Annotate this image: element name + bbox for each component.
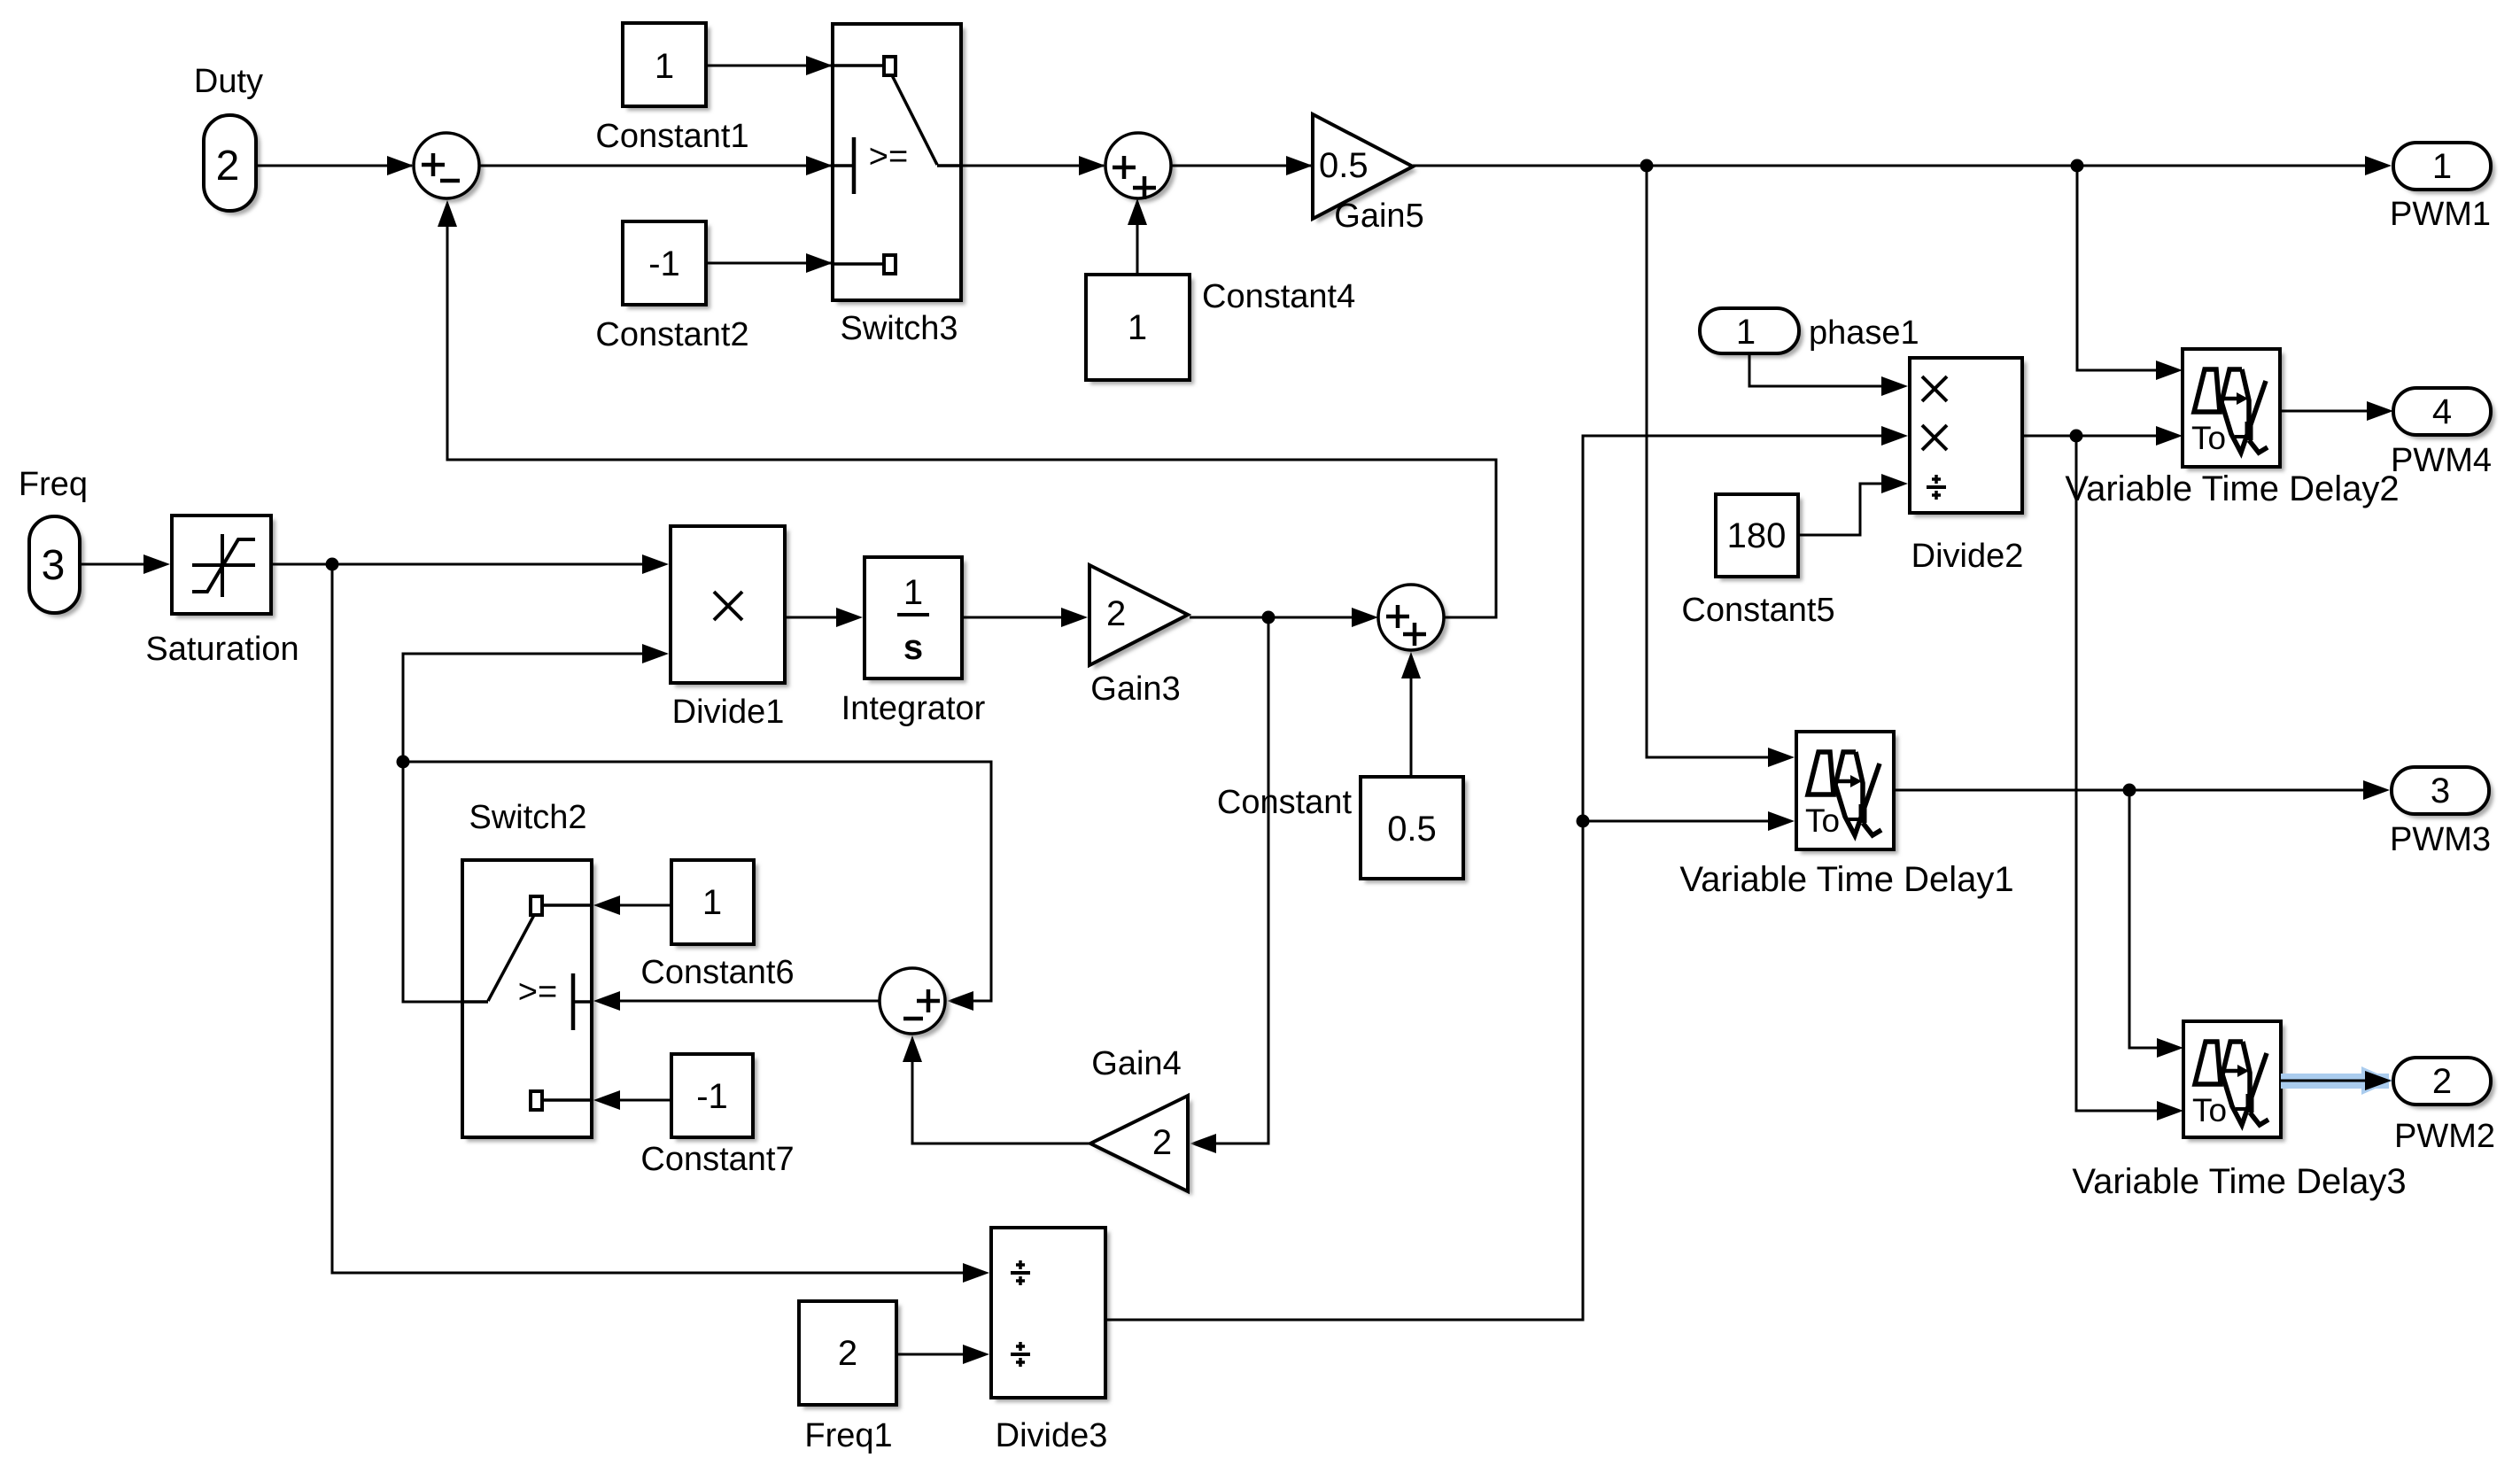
label Gain4 — [1091, 1045, 1181, 1082]
label Switch3 — [840, 310, 958, 347]
sum junction Sum1 (+ -) — [414, 133, 484, 203]
label Divide1 — [672, 694, 785, 731]
label Freq — [19, 466, 88, 503]
wire Gain4 to Sum4 bottom input — [903, 1035, 1090, 1144]
svg-text:>=: >= — [869, 138, 908, 175]
svg-text:180: 180 — [1727, 516, 1787, 555]
label Duty — [194, 63, 263, 100]
node junction after Gain3 — [1262, 611, 1276, 624]
output port PWM2 (Out 2) — [2393, 1058, 2495, 1109]
wire Sum3 output feedback to Sum1 — [438, 200, 1496, 617]
svg-text:4: 4 — [2432, 392, 2452, 431]
label Constant2 — [595, 316, 748, 353]
wire Constant4 to Sum2 — [1128, 198, 1147, 275]
wire Constant7 to Switch2 input 3 — [593, 1090, 671, 1110]
constant Constant1 (value 1) — [623, 23, 710, 111]
svg-text:PWM2: PWM2 — [2394, 1118, 2495, 1155]
svg-text:PWM3: PWM3 — [2390, 821, 2491, 858]
wire junction PWM3 down to Variable Time Delay3 input 1 — [2129, 790, 2183, 1058]
svg-text:Constant7: Constant7 — [640, 1141, 794, 1178]
gain Gain5 (0.5) — [1313, 114, 1417, 223]
svg-text:1: 1 — [655, 47, 674, 86]
svg-text:Variable Time Delay1: Variable Time Delay1 — [1679, 860, 2013, 899]
svg-text:1: 1 — [1736, 313, 1756, 352]
svg-text:2: 2 — [1152, 1123, 1172, 1162]
divide block Divide1 (x) — [671, 526, 789, 687]
svg-text:1: 1 — [702, 883, 722, 922]
constant Constant2 (value -1) — [623, 221, 710, 309]
node junction after Saturation — [326, 558, 339, 571]
label Divide3 — [996, 1417, 1108, 1454]
wire Variable Time Delay2 to PWM4 — [2280, 401, 2393, 421]
node junction on Divide3 riser — [1577, 815, 1590, 828]
svg-text:1: 1 — [1128, 308, 1147, 347]
wire Gain3 to Sum3 — [1190, 608, 1378, 627]
svg-text:Freq: Freq — [19, 466, 88, 503]
label PWM4 — [2391, 442, 2492, 479]
wire junction Divide2 down to Variable Time Delay3 input 2 — [2076, 436, 2183, 1120]
wire Variable Time Delay1 to PWM3 — [1894, 780, 2390, 800]
svg-text:2: 2 — [2432, 1062, 2452, 1101]
svg-text:2: 2 — [216, 143, 240, 190]
label PWM3 — [2390, 821, 2491, 858]
label Switch2 — [469, 799, 586, 836]
label Integrator — [841, 690, 986, 727]
svg-text:1: 1 — [903, 573, 923, 612]
gain Gain3 (2) — [1089, 565, 1192, 670]
constant Constant7 (value -1) — [671, 1054, 757, 1142]
node junction on Switch2 output loop — [397, 756, 410, 769]
constant Constant (value 0.5) — [1361, 777, 1468, 883]
svg-text:Divide1: Divide1 — [672, 694, 785, 731]
wire Constant1 to Switch3 input 1 — [706, 56, 833, 75]
node junction on PWM3 wire — [2123, 784, 2136, 797]
label phase1 — [1809, 314, 1919, 352]
constant Constant4 (value 1) — [1086, 275, 1194, 384]
svg-text:s: s — [903, 628, 923, 667]
constant Freq1 (value 2) — [799, 1301, 901, 1409]
output port PWM3 (Out 3) — [2392, 767, 2493, 818]
label Constant4 — [1202, 278, 1355, 315]
label Freq1 — [804, 1417, 892, 1454]
switch Switch2 (mirrored) — [462, 860, 596, 1142]
input port phase1 (In 1) — [1700, 308, 1803, 358]
svg-text:3: 3 — [42, 542, 66, 589]
wire junction Saturation down to Divide3 input 1 — [332, 564, 989, 1283]
wire junction riser to Variable Time Delay1 input 2 — [1583, 811, 1795, 831]
wire junction PWM1 to Variable Time Delay1 input 1 — [1647, 166, 1795, 767]
wire Variable Time Delay3 to PWM2 (selected, highlighted blue) — [2281, 1066, 2393, 1095]
svg-text:Duty: Duty — [194, 63, 263, 100]
node junction on PWM1 wire (to Variable Time Delay2) — [2071, 159, 2084, 173]
svg-text:Freq1: Freq1 — [804, 1417, 892, 1454]
label Constant — [1217, 784, 1353, 821]
divide block Divide2 — [1910, 358, 2027, 517]
wire junction PWM1 to Variable Time Delay2 input 1 — [2077, 166, 2183, 380]
constant Constant6 (value 1) — [671, 860, 758, 949]
svg-text:0.5: 0.5 — [1387, 810, 1437, 849]
output port PWM1 (Out 1) — [2393, 143, 2495, 194]
svg-text:Gain4: Gain4 — [1091, 1045, 1181, 1082]
wire Integrator to Gain3 — [962, 608, 1088, 627]
svg-text:Constant4: Constant4 — [1202, 278, 1355, 315]
svg-text:Variable Time Delay2: Variable Time Delay2 — [2065, 469, 2399, 508]
sum junction Sum2 (+ +) — [1105, 133, 1175, 203]
wire Divide1 to Integrator — [785, 608, 863, 627]
wire Constant2 to Switch3 input 3 — [706, 253, 833, 273]
svg-text:0.5: 0.5 — [1319, 146, 1369, 185]
wire Saturation to Divide1 input 1 — [271, 554, 669, 574]
wire Freq1 to Divide3 input 2 — [896, 1345, 989, 1364]
svg-text:-1: -1 — [648, 244, 680, 283]
svg-text:phase1: phase1 — [1809, 314, 1919, 352]
wire Divide3 output up to Divide2 input 2 — [1105, 426, 1908, 1320]
input port Duty (In 2) — [204, 115, 260, 215]
svg-text:Constant: Constant — [1217, 784, 1353, 821]
wire Switch3 to Sum2 — [961, 156, 1105, 175]
block Variable Time Delay1 — [1796, 732, 1898, 854]
svg-text:2: 2 — [1106, 594, 1126, 633]
label Saturation — [145, 631, 299, 668]
label Variable Time Delay1 — [1679, 860, 2013, 899]
svg-text:Divide3: Divide3 — [996, 1417, 1108, 1454]
wire Constant 0.5 to Sum3 — [1401, 652, 1421, 777]
wire junction Gain3 down to Gain4 input — [1190, 617, 1268, 1153]
label Divide2 — [1911, 538, 2024, 575]
label Constant6 — [640, 954, 794, 991]
wire Sum2 to Gain5 — [1171, 156, 1313, 175]
svg-text:Divide2: Divide2 — [1911, 538, 2024, 575]
wire Gain5 to PWM1 — [1413, 156, 2392, 175]
constant Constant5 (value 180) — [1716, 494, 1803, 581]
input port Freq (In 3) — [29, 516, 84, 617]
label Variable Time Delay3 — [2072, 1162, 2406, 1201]
svg-text:Gain3: Gain3 — [1090, 671, 1180, 708]
label Variable Time Delay2 — [2065, 469, 2399, 508]
wire Constant5 to Divide2 input 3 — [1798, 474, 1908, 535]
label Constant5 — [1681, 592, 1834, 629]
svg-text:PWM1: PWM1 — [2390, 196, 2491, 233]
node junction Divide2 output — [2070, 430, 2083, 443]
saturation block Saturation — [172, 516, 275, 618]
wire Sum4 output to Switch2 control input — [593, 991, 880, 1011]
sum junction Sum3 (+ +) — [1378, 585, 1448, 655]
svg-text:Variable Time Delay3: Variable Time Delay3 — [2072, 1162, 2406, 1201]
wire Constant6 to Switch2 input 1 — [593, 895, 671, 915]
svg-text:To: To — [2191, 420, 2226, 456]
svg-text:To: To — [1805, 802, 1840, 839]
gain Gain4 (2, mirrored) — [1090, 1096, 1192, 1196]
svg-text:Constant1: Constant1 — [595, 118, 748, 155]
svg-text:PWM4: PWM4 — [2391, 442, 2492, 479]
svg-text:Constant5: Constant5 — [1681, 592, 1834, 629]
svg-text:2: 2 — [838, 1334, 857, 1373]
svg-text:Constant6: Constant6 — [640, 954, 794, 991]
wire phase1 to Divide2 input 1 — [1749, 353, 1908, 396]
svg-text:Constant2: Constant2 — [595, 316, 748, 353]
switch Switch3 body — [833, 24, 965, 305]
label Gain3 — [1090, 671, 1180, 708]
wire junction Switch2 loop to Sum4 right input — [403, 762, 991, 1011]
integrator block Integrator (1/s) — [865, 557, 966, 683]
wire Divide2 to Variable Time Delay2 input 2 — [2022, 426, 2183, 446]
wire Freq to Saturation — [80, 554, 170, 574]
label PWM1 — [2390, 196, 2491, 233]
svg-text:-1: -1 — [696, 1077, 728, 1116]
label Constant7 — [640, 1141, 794, 1178]
block Variable Time Delay2 — [2183, 349, 2284, 471]
svg-text:>=: >= — [518, 973, 557, 1011]
sum junction Sum4 (- +) — [880, 968, 950, 1038]
label Gain5 — [1334, 198, 1423, 235]
divide block Divide3 — [991, 1228, 1110, 1402]
label Constant1 — [595, 118, 748, 155]
svg-text:Switch3: Switch3 — [840, 310, 958, 347]
svg-text:3: 3 — [2431, 771, 2450, 810]
svg-text:Switch2: Switch2 — [469, 799, 586, 836]
svg-text:Saturation: Saturation — [145, 631, 299, 668]
node junction on PWM1 wire (to Variable Time Delay1) — [1640, 159, 1654, 173]
svg-text:Gain5: Gain5 — [1334, 198, 1423, 235]
svg-text:1: 1 — [2432, 147, 2452, 186]
output port PWM4 (Out 4) — [2393, 388, 2495, 439]
wire Switch2 output loop to Divide1 input 2 — [403, 644, 669, 1002]
label PWM2 — [2394, 1118, 2495, 1155]
block Variable Time Delay3 — [2183, 1021, 2285, 1142]
wire Sum1 to Switch3 middle input — [479, 156, 833, 175]
svg-text:Integrator: Integrator — [841, 690, 986, 727]
svg-text:To: To — [2192, 1092, 2227, 1128]
wire Duty to Sum1 — [256, 156, 414, 175]
